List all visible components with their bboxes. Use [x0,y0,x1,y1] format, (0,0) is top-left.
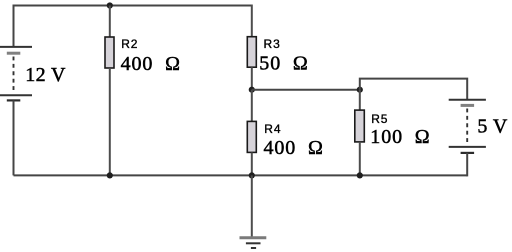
label R3 [264,37,281,51]
resistor R5 [355,110,365,142]
value 400 ohm (R4) [264,137,324,159]
wire R2 top lead [109,6,111,38]
wire left branch top (rail to V1 +) [13,5,15,47]
node A (top rail / R2) [107,2,113,8]
node B (R3/R4/mid wire) [249,87,255,93]
resistor R4 [247,121,256,152]
value 100 ohm (R5) [370,126,430,148]
wire R2 bottom lead [109,68,111,175]
label R4 [264,122,281,136]
label 5 V [477,116,507,138]
wire node C up and over to V2 + [360,79,467,100]
svg-text:400 Ω: 400 Ω [264,137,324,159]
svg-text:100 Ω: 100 Ω [370,126,430,148]
ground [240,238,267,248]
label R5 [371,112,388,126]
svg-text:400 Ω: 400 Ω [121,53,181,75]
node C (mid wire / R5 / V2 branch) [357,87,363,93]
wire V2 - to bottom rail [466,153,468,177]
wire R5 bottom lead [359,142,361,176]
svg-text:R3: R3 [264,37,281,51]
wire R5 top lead [359,90,361,110]
wire left branch bottom (V1 - to bottom rail) [13,100,15,175]
wire R3 bottom lead to node B [251,67,253,90]
node (R2 / bottom rail) [107,172,113,178]
svg-text:50 Ω: 50 Ω [259,52,308,74]
node (R4 / bottom rail) [249,172,255,178]
value 50 ohm (R3) [259,52,308,74]
label R2 [121,37,138,51]
svg-text:R2: R2 [121,37,138,51]
wire bottom rail [14,174,468,176]
wire R4 top lead [251,90,253,122]
resistor R3 [247,37,256,67]
svg-text:R4: R4 [264,122,281,136]
value 400 ohm (R2) [121,53,181,75]
node (R5 / bottom rail) [357,172,363,178]
wire R3 top lead (rail corner to R3) [251,5,253,37]
battery V1 12 V [0,47,32,101]
svg-text:12 V: 12 V [25,64,66,86]
wire top rail [14,5,252,7]
svg-text:5 V: 5 V [477,116,507,138]
resistor R2 [105,37,114,68]
wire middle rail (node B to node C) [252,89,360,91]
battery V2 5 V [449,100,486,153]
svg-text:R5: R5 [371,112,388,126]
label 12 V [25,64,66,86]
wire ground stem [251,175,253,237]
wire R4 bottom lead [251,152,253,175]
